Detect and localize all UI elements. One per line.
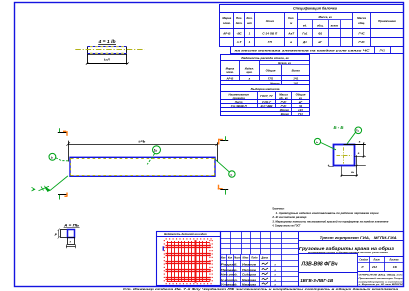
svg-text:Выборка металла: Выборка металла bbox=[251, 87, 280, 91]
svg-text:Р: Р bbox=[361, 265, 363, 269]
svg-text:Дата: Дата bbox=[260, 257, 268, 260]
svg-text:ГОСТ, ТУ: ГОСТ, ТУ bbox=[260, 94, 274, 98]
svg-text:Макарова: Макарова bbox=[242, 278, 256, 282]
svg-text:ОТКРЫТОЕ АКЦ. ОБЩ. infо: ОТКРЫТОЕ АКЦ. ОБЩ. infо bbox=[359, 275, 404, 277]
svg-text:2. В числителе размер: 2. В числителе размер bbox=[271, 215, 306, 219]
svg-text:Грузовые габариты крана на обр: Грузовые габариты крана на обриз bbox=[299, 246, 395, 251]
svg-text:Гь: Гь bbox=[356, 129, 360, 133]
svg-text:Трест горпроект ГИА, МГПИ-ГИ: Трест горпроект ГИА, МГПИ-ГИА bbox=[320, 236, 398, 240]
svg-text:арм.: арм. bbox=[246, 70, 252, 74]
svg-text:Петров: Петров bbox=[242, 268, 256, 272]
svg-text:Кол.: Кол. bbox=[288, 16, 294, 20]
svg-text:Разраб.: Разраб. bbox=[221, 263, 238, 267]
svg-text:Сидоров: Сидоров bbox=[242, 273, 256, 277]
svg-text:Ведомость расхода стали, кг: Ведомость расхода стали, кг bbox=[241, 56, 289, 60]
svg-text:ГЧС: ГЧС bbox=[359, 40, 366, 44]
svg-text:коммундортранс и сметного: коммундортранс и сметного bbox=[359, 280, 404, 283]
svg-text:Изм: Изм bbox=[221, 257, 226, 260]
svg-text:Нач.отд.: Нач.отд. bbox=[221, 273, 238, 277]
svg-text:Примечание: Примечание bbox=[378, 19, 396, 23]
svg-text:Лист: Лист bbox=[373, 260, 380, 262]
svg-text:Подп: Подп bbox=[251, 257, 258, 260]
svg-text:Б - Б: Б - Б bbox=[334, 125, 344, 130]
svg-text:Стадия: Стадия bbox=[359, 259, 368, 262]
svg-text:Nдок: Nдок bbox=[242, 257, 249, 260]
svg-text:шт: шт bbox=[247, 21, 253, 25]
svg-text:вГ: вГ bbox=[318, 40, 322, 44]
svg-text:4 = 1 lb: 4 = 1 lb bbox=[97, 39, 115, 44]
svg-text:ГЧС: ГЧС bbox=[359, 32, 366, 36]
svg-text:Г11: Г11 bbox=[298, 112, 303, 116]
svg-text:ь=Ь: ь=Ь bbox=[139, 139, 146, 143]
svg-text:Иванов: Иванов bbox=[242, 263, 256, 267]
svg-text:ь: ь bbox=[231, 173, 233, 177]
svg-text:дет.: дет. bbox=[236, 21, 243, 25]
svg-text:Марка: Марка bbox=[222, 16, 231, 20]
svg-text:ед.: ед. bbox=[303, 23, 307, 27]
svg-text:Масса: Масса bbox=[357, 16, 366, 20]
svg-text:Га1: Га1 bbox=[302, 32, 307, 36]
svg-text:Кол: Кол bbox=[228, 257, 233, 260]
svg-text:Всего: Всего bbox=[281, 112, 290, 116]
svg-text:ГЧ1: ГЧ1 bbox=[380, 48, 386, 52]
svg-text:Эскиз: Эскиз bbox=[266, 19, 275, 23]
svg-text:Ст ЗВЗВ-П: Ст ЗВЗВ-П bbox=[231, 104, 248, 108]
svg-text:Всего: Всего bbox=[292, 69, 301, 73]
svg-text:Спецификация балочки: Спецификация балочки bbox=[293, 6, 338, 11]
svg-text:С-14 ОВ П: С-14 ОВ П bbox=[262, 32, 278, 36]
svg-text:Проектный институт Гипро: Проектный институт Гипро bbox=[359, 277, 404, 280]
svg-text:ГЛ1: ГЛ1 bbox=[268, 76, 274, 80]
svg-text:Масса, кг: Масса, кг bbox=[318, 15, 332, 19]
svg-text:Кол.: Кол. bbox=[246, 16, 252, 20]
svg-text:ЛЗВ-В98 ФГВч: ЛЗВ-В98 ФГВч bbox=[301, 262, 339, 268]
svg-text:Ведомость деталей на издел.: Ведомость деталей на издел. bbox=[164, 232, 207, 236]
svg-text:гь: гь bbox=[351, 170, 354, 174]
svg-text:Общая: Общая bbox=[266, 69, 276, 73]
svg-text:общ.: общ. bbox=[358, 21, 365, 25]
svg-text:А = ПЬ: А = ПЬ bbox=[63, 223, 80, 227]
svg-text:1Ч1: 1Ч1 bbox=[293, 76, 299, 80]
svg-text:элем.: элем. bbox=[226, 70, 234, 74]
svg-text:элем.: элем. bbox=[223, 21, 231, 25]
svg-text:г. Воронеж ул. 20 лет ВЛКСМ: г. Воронеж ул. 20 лет ВЛКСМ bbox=[359, 284, 403, 286]
svg-text:212: 212 bbox=[371, 265, 377, 269]
svg-text:Утверд.: Утверд. bbox=[221, 282, 238, 286]
svg-text:Д1: Д1 bbox=[302, 40, 307, 44]
svg-text:Макарова: Макарова bbox=[242, 282, 256, 286]
svg-text:всего: всего bbox=[331, 24, 339, 27]
svg-text:1Ф: 1Ф bbox=[393, 265, 398, 269]
svg-text:Поз.: Поз. bbox=[236, 16, 242, 20]
svg-text:1ь: 1ь bbox=[154, 148, 158, 152]
svg-text:ЬхЛ: ЬхЛ bbox=[104, 57, 111, 61]
svg-text:АР-В: АР-В bbox=[225, 76, 233, 80]
svg-text:Ст. Инженер отдела Ив. 7-й Флу: Ст. Инженер отдела Ив. 7-й Флу Чербалет … bbox=[123, 287, 399, 291]
svg-text:в: в bbox=[290, 40, 292, 44]
svg-text:АР-В: АР-В bbox=[222, 32, 231, 36]
svg-text:1ВГВ-3-ЛВГ-1В: 1ВГВ-3-ЛВГ-1В bbox=[300, 278, 333, 284]
svg-text:АвТ: АвТ bbox=[287, 32, 295, 36]
svg-text:В-С ЧВВ: В-С ЧВВ bbox=[261, 104, 273, 108]
svg-text:Н.контр.: Н.контр. bbox=[221, 278, 238, 282]
svg-text:на месте монтажа элементов на: на месте монтажа элементов на каждом узл… bbox=[235, 48, 370, 52]
svg-text:4. Сварку вести по ГОСТ: 4. Сварку вести по ГОСТ bbox=[272, 224, 301, 228]
svg-text:монтажная схема и балансировка: монтажная схема и балансировка мелочи уз… bbox=[308, 251, 389, 254]
svg-text:Листов: Листов bbox=[388, 260, 399, 262]
svg-text:общ.: общ. bbox=[317, 23, 324, 27]
svg-text:Лист: Лист bbox=[233, 257, 241, 260]
svg-text:Провер.: Провер. bbox=[221, 268, 238, 272]
svg-text:Ф1: Ф1 bbox=[318, 32, 322, 36]
svg-text:-ВС: -ВС bbox=[236, 32, 242, 36]
svg-text:Всего, кг: Всего, кг bbox=[278, 61, 291, 65]
svg-text:ь: ь bbox=[51, 155, 53, 159]
